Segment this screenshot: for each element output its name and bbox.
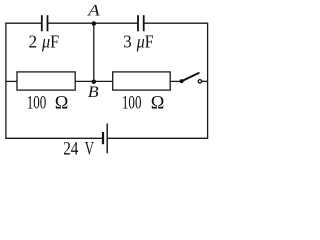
wire left border [5,23,7,138]
resistor R1 value label 100 ohm [27,94,69,114]
resistor R2 value label 100 ohm [122,94,164,114]
svg-text:μF: μF [136,31,154,51]
svg-text:24: 24 [63,140,78,160]
resistor R2 box [113,72,171,90]
battery BT1 value label 24 V [63,140,94,160]
svg-text:Ω: Ω [151,94,165,114]
capacitor C1 2uF plates [42,15,48,31]
wire bottom border left segment [5,137,103,139]
svg-text:Ω: Ω [55,94,69,114]
resistor R1 box [17,72,75,90]
node A dot [92,21,97,26]
wire left border to resistor R1 [6,80,17,82]
wire top border left segment [5,22,42,24]
wire resistor R1 to node B to resistor R2 [75,80,113,82]
svg-text:V: V [85,140,95,160]
capacitor C1 value label 2 uF [29,31,60,51]
wire top border middle segment [48,22,139,24]
switch S1 blade (open) [182,73,199,81]
svg-text:100: 100 [27,94,47,114]
svg-text:100: 100 [122,94,142,114]
battery BT1 negative short plate [102,132,104,144]
svg-text:2: 2 [29,31,38,51]
node B dot [92,79,97,84]
battery BT1 positive long plate [106,124,108,154]
wire resistor R2 to switch [170,80,181,82]
switch S1 pivot dot [180,79,184,83]
svg-text:3: 3 [123,31,132,51]
wire from node A down to node B [93,23,95,81]
wire bottom border right segment [107,137,208,139]
switch S1 open contact circle [198,80,201,83]
svg-text:B: B [88,84,99,101]
wire right border [207,23,209,138]
capacitor C2 value label 3 uF [123,31,153,51]
capacitor C2 3uF plates [138,15,144,31]
wire top border right segment [144,22,209,24]
wire switch to right border [202,80,208,82]
svg-text:μF: μF [41,31,59,51]
svg-text:A: A [87,3,101,20]
